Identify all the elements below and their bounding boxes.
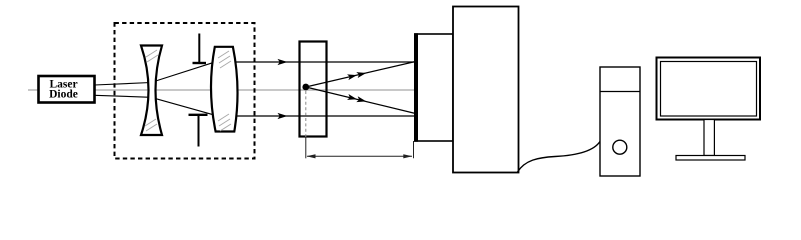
aperture stop upper [193,34,207,64]
camera lens mount [415,33,453,142]
collimated beam bottom [235,113,416,119]
camera body [453,7,519,173]
scattered ray upper [306,62,416,88]
dimension line [307,141,414,158]
tower power button [613,140,627,154]
ray upper from laser to lens L1 [95,62,215,85]
optical axis [28,89,416,91]
monitor stand column [704,120,714,156]
beam expander dashed box [115,23,255,159]
monitor base [676,156,745,161]
scatter point dot [302,84,309,91]
computer tower [600,67,640,176]
extension line left (dimension) [305,137,307,158]
lens L1 hatching [145,50,158,131]
laser diode box [39,76,95,103]
monitor screen [661,62,757,117]
aperture stop lower [189,115,208,147]
monitor [657,58,761,161]
svg-text:Diode: Diode [49,89,78,101]
ray lower from laser to lens L1 [95,95,214,115]
convex lens L2 [211,47,238,132]
cable camera to computer [518,142,601,173]
dashed centre line below scatter point [305,91,307,137]
scattered ray lower [306,87,416,114]
collimated beam top [235,59,416,65]
concave lens L1 [141,46,162,136]
lens L2 hatching [218,51,231,131]
sample cell box [300,42,327,137]
